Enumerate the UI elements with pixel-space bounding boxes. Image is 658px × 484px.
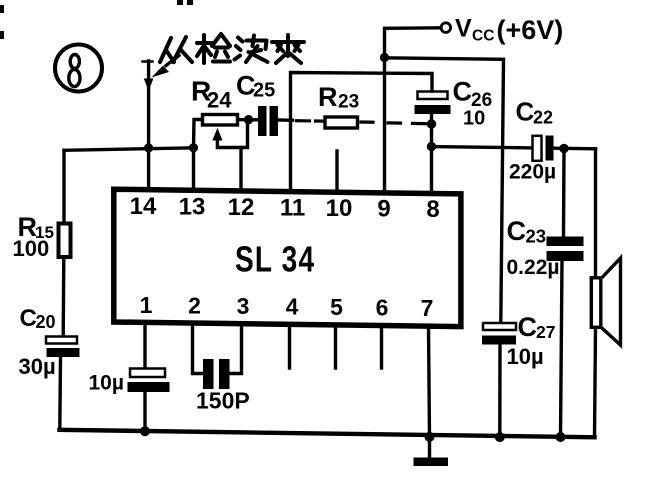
wire: pin 8 to C22 bbox=[432, 147, 534, 148]
wire: C23 top lead bbox=[562, 149, 566, 238]
wire: R24 right lead to C25 bbox=[238, 118, 259, 122]
wire: C26 bottom to pin 8 bbox=[430, 114, 433, 192]
label C25 bbox=[236, 71, 275, 102]
svg-text:27: 27 bbox=[536, 322, 555, 342]
wire: pin 7 to ground bus bbox=[429, 327, 430, 438]
node: pin 7 bus junction bbox=[425, 432, 435, 442]
node: pin1 cap bus junction bbox=[140, 426, 150, 436]
signal flow arrow into input bbox=[152, 56, 180, 78]
wire: pin 2 lead bbox=[193, 325, 204, 374]
speaker LS bbox=[591, 258, 620, 345]
pin labels bottom row bbox=[140, 292, 434, 321]
svg-text:C: C bbox=[20, 305, 37, 332]
wire: pin 5 stub bbox=[334, 326, 337, 368]
svg-text:C: C bbox=[518, 312, 538, 342]
svg-text:11: 11 bbox=[280, 195, 305, 222]
annotation: 从检波來 (from detector) bbox=[160, 34, 304, 63]
node: C23 tap bbox=[559, 144, 568, 153]
svg-text:30µ: 30µ bbox=[19, 354, 56, 379]
capacitor C20 bbox=[46, 337, 80, 358]
svg-text:25: 25 bbox=[253, 80, 275, 102]
capacitor C27 bbox=[482, 323, 516, 345]
wire: Vcc to pin 9 bbox=[385, 28, 442, 193]
wire: pin 4 stub bbox=[288, 326, 291, 369]
figure number 8 bbox=[55, 45, 102, 92]
wire: horizontal from R15 top to pin 13 junction bbox=[64, 148, 194, 151]
wire: C22 to speaker bbox=[555, 146, 596, 150]
wire: speaker top lead bbox=[594, 149, 597, 277]
capacitor C23 bbox=[547, 237, 584, 262]
wire: pin 6 stub bbox=[380, 327, 383, 369]
svg-text:0.22µ: 0.22µ bbox=[507, 256, 560, 279]
label C23 bbox=[507, 216, 547, 247]
wire: pin 10 stub bbox=[335, 151, 338, 192]
label R15 bbox=[18, 212, 54, 242]
wire: C23 to ground bus bbox=[561, 261, 563, 437]
svg-text:6: 6 bbox=[376, 295, 389, 321]
svg-text:100: 100 bbox=[13, 236, 50, 261]
node: C27 bus junction bbox=[495, 432, 505, 442]
label C27 bbox=[518, 312, 556, 342]
node: pin 13 junction bbox=[189, 143, 198, 152]
node: C23 bus junction bbox=[556, 432, 566, 442]
svg-text:14: 14 bbox=[130, 193, 157, 220]
dashed link: C25 through R23 to pin 8 bbox=[297, 121, 427, 124]
label C22 bbox=[516, 97, 554, 128]
svg-text:CC: CC bbox=[472, 28, 494, 45]
svg-text:5: 5 bbox=[330, 294, 343, 320]
arrowhead on input wire bbox=[144, 79, 154, 92]
svg-text:C: C bbox=[453, 77, 473, 107]
wire: C20 to ground bus bbox=[58, 357, 62, 430]
ground bbox=[414, 437, 449, 466]
capacitor 150P bbox=[203, 359, 230, 389]
wire: pin 11 riser and top rail to C26 bbox=[291, 73, 433, 191]
capacitor 10µ (pin 1) bbox=[128, 369, 170, 393]
capacitor C25 bbox=[258, 106, 278, 136]
svg-text:22: 22 bbox=[533, 108, 553, 128]
wire: pin 1 to 10µ cap bbox=[143, 325, 146, 369]
wire: C27 to ground bus bbox=[498, 345, 502, 438]
svg-text:(+6V): (+6V) bbox=[497, 15, 564, 45]
wire: wiper drop to pin 12 bbox=[239, 148, 242, 191]
resistor R15 bbox=[59, 224, 71, 258]
node: pin 8 dashed-line junction bbox=[427, 119, 436, 128]
svg-text:SL 34: SL 34 bbox=[235, 239, 315, 279]
svg-text:C: C bbox=[516, 97, 535, 127]
svg-text:4: 4 bbox=[286, 294, 299, 320]
svg-text:13: 13 bbox=[179, 194, 206, 221]
resistor R23 bbox=[325, 117, 358, 128]
node: input wire junction bbox=[144, 143, 153, 152]
svg-text:V: V bbox=[455, 15, 472, 43]
svg-text:23: 23 bbox=[526, 226, 547, 247]
svg-text:2: 2 bbox=[188, 293, 201, 319]
label C26 bbox=[453, 77, 493, 112]
svg-text:10: 10 bbox=[326, 195, 353, 222]
wire: R24 left lead down to pin 13 bbox=[194, 120, 203, 191]
label Vcc (+6V) bbox=[455, 15, 563, 46]
svg-text:10: 10 bbox=[463, 108, 485, 130]
svg-text:20: 20 bbox=[36, 312, 56, 332]
capacitor C26 bbox=[415, 92, 451, 115]
node: Vcc rail junction bbox=[380, 53, 389, 62]
svg-text:7: 7 bbox=[421, 295, 434, 321]
wire: speaker bottom lead bbox=[595, 329, 596, 438]
svg-text:10µ: 10µ bbox=[89, 372, 124, 395]
ground bus wire bbox=[60, 430, 595, 438]
wire: pin 3 lead bbox=[230, 325, 242, 374]
Vcc terminal bbox=[441, 23, 451, 33]
node: R24 right terminal junction bbox=[244, 115, 253, 124]
pin labels top row bbox=[130, 193, 440, 223]
svg-text:10µ: 10µ bbox=[507, 344, 544, 369]
svg-text:12: 12 bbox=[228, 194, 255, 221]
svg-text:R: R bbox=[318, 82, 338, 112]
IC U1 SL34 bbox=[114, 189, 461, 326]
wire: R15 to C20 bbox=[62, 258, 66, 336]
svg-text:220µ: 220µ bbox=[509, 161, 556, 184]
wire: Vcc rail over to C27 column bbox=[385, 58, 504, 323]
wire: 10µ cap to ground bus bbox=[143, 392, 146, 431]
wire: C25 to pin 11 riser bbox=[278, 118, 293, 122]
label R24 bbox=[191, 76, 232, 113]
node: pin 8 C22 junction bbox=[427, 142, 436, 151]
svg-text:3: 3 bbox=[237, 293, 250, 319]
potentiometer R24 bbox=[203, 115, 248, 148]
svg-text:C: C bbox=[507, 216, 527, 246]
svg-text:23: 23 bbox=[338, 92, 359, 113]
svg-text:8: 8 bbox=[426, 196, 439, 223]
capacitor C22 bbox=[533, 136, 554, 161]
svg-text:1: 1 bbox=[140, 292, 153, 318]
wire: R15 top lead bbox=[62, 150, 65, 222]
svg-text:150P: 150P bbox=[196, 388, 250, 414]
svg-text:24: 24 bbox=[207, 88, 232, 113]
svg-text:9: 9 bbox=[377, 196, 390, 223]
wire: input vertical down to pin 14 bbox=[143, 61, 153, 190]
label R23 bbox=[318, 82, 359, 113]
label C20 bbox=[20, 305, 56, 332]
